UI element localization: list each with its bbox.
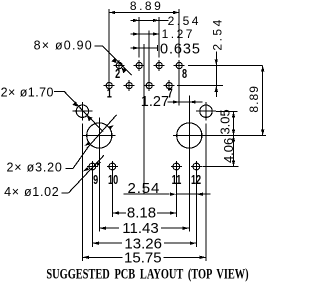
svg-text:3.05: 3.05 bbox=[217, 109, 232, 134]
extension line pin6 column bbox=[158, 17, 160, 58]
extension line shield right down bbox=[205, 123, 207, 260]
dimension 3.05 and 4.06 vertical line bbox=[232, 111, 235, 166]
svg-text:8: 8 bbox=[182, 68, 187, 82]
pin 4 hole bbox=[134, 60, 145, 71]
svg-text:2.54: 2.54 bbox=[211, 17, 225, 50]
dimension 8.89 top bbox=[109, 11, 179, 14]
svg-text:1.27: 1.27 bbox=[162, 27, 195, 41]
pin 9 hole bbox=[87, 161, 98, 172]
svg-text:1.27: 1.27 bbox=[141, 94, 169, 110]
post row line right bbox=[206, 135, 267, 137]
shield hole row line right bbox=[216, 110, 238, 112]
svg-text:4× ø1.02: 4× ø1.02 bbox=[4, 185, 59, 199]
dimension 8.89 vertical right bbox=[261, 66, 264, 136]
extension line pin11 down bbox=[175, 172, 177, 217]
post hole left dia 3.20 bbox=[83, 118, 115, 232]
pin 10 hole bbox=[107, 161, 118, 172]
pin8 row line A bbox=[188, 65, 263, 67]
shield hole right dia 1.70 bbox=[196, 102, 216, 121]
extension line right post column upper bbox=[188, 96, 190, 136]
extension line pin10 down bbox=[111, 172, 113, 217]
leader dia 3.20 to left post bbox=[66, 115, 117, 168]
dimension 1.27 pin8 to post bbox=[168, 100, 203, 103]
pin 11 hole bbox=[171, 161, 182, 172]
extension line pin1 column bbox=[108, 9, 110, 80]
center line bbox=[143, 44, 145, 194]
extension line pin9 down bbox=[91, 172, 93, 247]
extension line pin5 column bbox=[148, 31, 150, 81]
extension line pin4 column bbox=[138, 17, 140, 58]
extension line shield left down bbox=[81, 123, 83, 260]
svg-text:10: 10 bbox=[108, 173, 118, 187]
dimension 11.43 bbox=[99, 227, 189, 230]
extension line pin8 column upper bbox=[178, 9, 180, 58]
pin 7 hole bbox=[164, 80, 175, 91]
dimension 13.26 bbox=[92, 242, 196, 245]
shield hole left dia 1.70 bbox=[72, 102, 92, 121]
extension line pin8 column lower bbox=[178, 71, 180, 105]
svg-text:2× ø3.20: 2× ø3.20 bbox=[7, 160, 63, 174]
dimension 2.54 pins 11-12 bbox=[123, 193, 210, 196]
pin7 row line B bbox=[177, 85, 223, 87]
post hole right dia 3.20 bbox=[173, 123, 206, 232]
svg-text:2.54: 2.54 bbox=[168, 14, 201, 28]
svg-text:8.89: 8.89 bbox=[247, 85, 261, 113]
pin 12 hole bbox=[191, 161, 202, 172]
svg-text:8× ø0.90: 8× ø0.90 bbox=[34, 39, 93, 53]
pin 2 hole bbox=[114, 60, 125, 71]
svg-text:4.06: 4.06 bbox=[221, 138, 236, 163]
dimension 15.75 bbox=[82, 256, 206, 259]
svg-text:1: 1 bbox=[107, 87, 112, 101]
dimension 8.18 bbox=[112, 211, 176, 214]
svg-text:8.89: 8.89 bbox=[130, 0, 163, 13]
dimension 0.635 center offset bbox=[131, 45, 158, 51]
leader dia 0.90 to pin2 bbox=[94, 46, 131, 75]
svg-text:8.18: 8.18 bbox=[127, 204, 156, 221]
pin 1 hole bbox=[104, 80, 115, 91]
pin 8 hole bbox=[174, 60, 185, 71]
svg-text:SUGGESTED PCB LAYOUT (TOP VIEW: SUGGESTED PCB LAYOUT (TOP VIEW) bbox=[46, 266, 248, 282]
svg-text:2: 2 bbox=[115, 68, 120, 82]
leader dia 1.70 to left shield hole bbox=[54, 92, 103, 132]
svg-text:9: 9 bbox=[93, 173, 98, 187]
dimension 1.27 stagger bbox=[131, 32, 160, 35]
svg-text:2.54: 2.54 bbox=[128, 180, 161, 197]
dimension 2.54 row spacing vertical bbox=[215, 52, 218, 97]
bottom pin row line right bbox=[202, 166, 238, 168]
dimension 2.54 pin pitch bbox=[131, 19, 169, 22]
pin 5 hole bbox=[144, 80, 155, 91]
pin 3 hole bbox=[124, 80, 135, 91]
svg-text:0.635: 0.635 bbox=[160, 42, 201, 58]
pin 6 hole bbox=[154, 60, 165, 71]
svg-text:2× ø1.70: 2× ø1.70 bbox=[1, 85, 54, 99]
svg-text:15.75: 15.75 bbox=[124, 250, 162, 267]
leader dia 1.02 to pin9 bbox=[61, 155, 104, 193]
extension line pin12 down bbox=[195, 172, 197, 247]
